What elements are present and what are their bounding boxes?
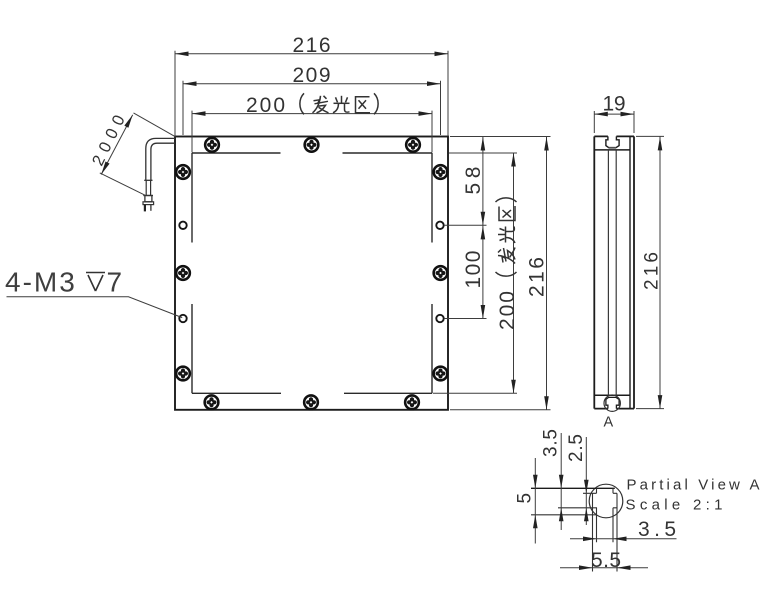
svg-text:2.5: 2.5 (566, 434, 587, 462)
detail A indicator circle (604, 395, 620, 411)
connector stem (146, 180, 150, 195)
svg-text:A: A (604, 415, 614, 431)
dim 209: dimension line (183, 83, 441, 85)
detail dim 5: dimension line (534, 458, 536, 544)
partial view A: top surface line (531, 487, 615, 489)
screw left-top (176, 165, 190, 179)
screw top-right (406, 138, 420, 152)
mounting hole left-lower M3 (179, 315, 186, 322)
svg-text:Scale 2:1: Scale 2:1 (626, 497, 723, 514)
svg-text:209: 209 (293, 64, 331, 87)
depth symbol (bar with down arrow) (86, 273, 105, 292)
dim 216 top: extension lines (174, 51, 176, 136)
partial view A: detail circle (589, 484, 623, 518)
detail dim 2.5 lower arrow (584, 508, 589, 522)
dim 200 top right arrow (419, 111, 433, 116)
svg-text:216: 216 (642, 252, 663, 290)
dim 58 top arrow (481, 137, 486, 151)
detail dim 2.5 upper arrow (584, 480, 589, 494)
side view: internal line above bottom slot (594, 394, 630, 396)
dim 216 top left arrow (175, 52, 189, 57)
screw right-middle (434, 266, 448, 280)
dim 19 right arrow (621, 112, 635, 117)
light emitting area inner square (with middle gaps) (192, 153, 432, 393)
svg-text:3.5: 3.5 (638, 518, 676, 541)
side view: bottom T-slot (detail A area) (606, 397, 619, 408)
svg-text:7: 7 (107, 267, 123, 298)
side dim 216: dimension line (659, 136, 661, 408)
screw bottom-left (205, 395, 219, 409)
dim 58 bottom arrow (481, 212, 486, 226)
dim 200 top left arrow (192, 111, 206, 116)
detail dim 3.5 right arrow (613, 537, 627, 542)
mounting hole left-upper M3 (179, 222, 186, 229)
screw top-left (205, 138, 219, 152)
inner top extension to right (449, 152, 517, 154)
side view top slot bottom (609, 147, 617, 149)
dim 2000 extension line lower (100, 173, 145, 195)
side view: internal line below top slot (594, 149, 630, 151)
screw left-bottom (176, 367, 190, 381)
mounting hole right-lower M3 (436, 315, 443, 322)
dim 209: extension lines (182, 81, 184, 135)
panel bottom edge extension to right (450, 409, 551, 411)
partial view A: slot right outer wall (616, 493, 618, 571)
screw left-middle (176, 266, 190, 280)
screw right-top (434, 165, 448, 179)
cable exiting panel left side (146, 138, 175, 180)
dim 200 top: extension lines (191, 111, 193, 153)
svg-text:3.5: 3.5 (541, 429, 562, 457)
side view: top T-slot (606, 136, 619, 147)
dim 2000 extension line upper (134, 113, 176, 137)
panel top edge extension to right (450, 136, 551, 138)
dim 19: extension lines (593, 111, 595, 133)
side dim 216: extension lines (636, 135, 664, 137)
side dim 216 bottom arrow (658, 395, 663, 409)
svg-text:5: 5 (515, 493, 536, 504)
connector prongs (144, 205, 146, 212)
connector tip bar (143, 202, 154, 205)
dim 216 top: dimension line (175, 53, 448, 55)
detail dim 3.5 lower arrow (559, 508, 564, 522)
dim 19 left arrow (594, 112, 608, 117)
dim 216 right top arrow (544, 137, 549, 151)
detail dim 2.5: dimension line (585, 437, 587, 525)
detail dim 5.5 right arrow (617, 565, 631, 570)
dim 100: dimension line (482, 225, 484, 318)
dim text 200 (luminous area) vertical (496, 198, 520, 330)
dim 216 top right arrow (435, 52, 449, 57)
detail dim 3.5 bottom: dimension line (570, 538, 677, 540)
dim 200 top: dimension line (192, 113, 432, 115)
dim 100 top arrow (481, 226, 486, 240)
dim 209 right arrow (427, 81, 441, 86)
connector body (143, 195, 153, 197)
side view right inner line (629, 136, 631, 408)
dim 216 right: dimension line (546, 137, 548, 410)
dim 2000 arrow upper (124, 114, 134, 128)
screw bottom-middle (304, 395, 318, 409)
hole upper extension line (444, 224, 487, 226)
svg-text:216: 216 (526, 257, 549, 297)
screw right-bottom (434, 367, 448, 381)
dim 209 left arrow (183, 81, 197, 86)
cable end tick (144, 179, 152, 181)
side view: internal vertical lines (608, 150, 616, 395)
detail dim 3.5: dimension line (560, 433, 562, 530)
partial view A: slot right inner wall (top tab + throat) (612, 488, 614, 542)
svg-text:Partial View A: Partial View A (627, 477, 760, 494)
svg-text:216: 216 (293, 34, 331, 57)
dim 2000 arrow lower (99, 162, 109, 176)
dim 2000 dimension line (101, 115, 133, 175)
hole lower extension line (444, 318, 487, 320)
callout leader line (7, 297, 183, 318)
svg-text:58: 58 (462, 167, 485, 195)
mounting hole right-upper M3 (436, 222, 443, 229)
side dim 216 top arrow (658, 137, 663, 151)
detail dim 3.5 upper arrow (559, 475, 564, 489)
detail dim 5.5 left arrow (579, 565, 593, 570)
detail dim 5 upper arrow (533, 475, 538, 489)
svg-text:100: 100 (462, 251, 485, 289)
screw top-middle (305, 138, 319, 152)
dim 200 right top arrow (511, 153, 516, 167)
svg-text:19: 19 (603, 93, 626, 116)
inner bottom extension to right (433, 392, 517, 394)
svg-text:5.5: 5.5 (591, 549, 621, 572)
dim 200 right bottom arrow (511, 380, 516, 394)
svg-text:4-M3: 4-M3 (5, 267, 77, 298)
screw bottom-right (405, 395, 419, 409)
detail dim 3.5 left arrow (583, 537, 597, 542)
dim 200 right: dimension line (513, 153, 515, 393)
dim text 200 (luminous area) horizontal (246, 93, 378, 117)
detail dim 5 lower arrow (533, 515, 538, 529)
dim 19: dimension line (594, 113, 634, 115)
partial view A: slot left inner wall (top tab + throat) (596, 488, 598, 542)
dim 216 right bottom arrow (544, 396, 549, 410)
main front view: panel outer frame (175, 137, 448, 410)
partial view A: tab step lines (531, 493, 617, 515)
dim 100 bottom arrow (481, 305, 486, 319)
detail dim 5.5: dimension line (560, 567, 648, 569)
side view: body outline (594, 136, 634, 408)
dim 58: dimension line (482, 137, 484, 226)
partial view A: slot left outer wall (592, 493, 594, 571)
